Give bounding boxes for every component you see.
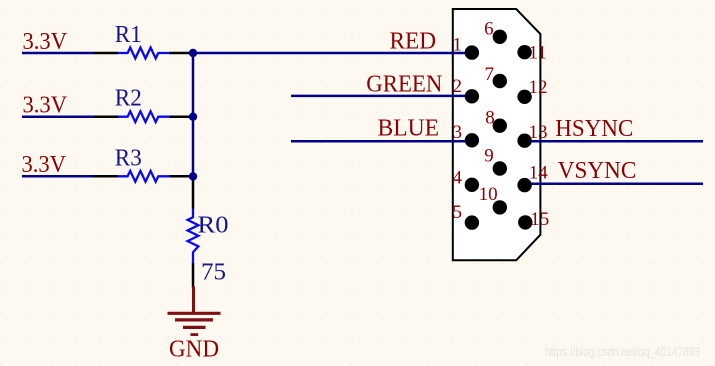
svg-text:R1: R1: [115, 22, 142, 48]
svg-text:GND: GND: [169, 337, 219, 363]
svg-text:4: 4: [453, 167, 463, 188]
svg-text:14: 14: [529, 162, 549, 183]
svg-text:5: 5: [453, 202, 463, 223]
svg-text:6: 6: [484, 19, 494, 40]
svg-text:13: 13: [529, 122, 548, 143]
svg-text:3.3V: 3.3V: [22, 152, 67, 178]
svg-text:R2: R2: [115, 86, 142, 112]
svg-text:BLUE: BLUE: [378, 116, 440, 142]
svg-text:R0: R0: [198, 212, 229, 238]
svg-text:3: 3: [453, 122, 463, 143]
svg-text:R3: R3: [115, 145, 142, 171]
svg-text:HSYNC: HSYNC: [555, 116, 633, 142]
svg-text:3.3V: 3.3V: [23, 29, 68, 55]
svg-text:15: 15: [530, 209, 549, 230]
svg-text:11: 11: [529, 42, 547, 63]
svg-text:RED: RED: [390, 29, 437, 55]
svg-text:75: 75: [201, 260, 226, 286]
svg-text:9: 9: [484, 146, 494, 167]
svg-text:https://blog.csdn.net/qq_40147: https://blog.csdn.net/qq_40147893: [545, 344, 700, 359]
svg-text:3.3V: 3.3V: [23, 93, 68, 119]
svg-text:2: 2: [453, 76, 463, 97]
svg-text:7: 7: [485, 64, 495, 85]
svg-text:12: 12: [529, 77, 548, 98]
svg-text:8: 8: [485, 108, 495, 129]
svg-text:VSYNC: VSYNC: [558, 158, 637, 184]
svg-text:GREEN: GREEN: [366, 71, 442, 97]
svg-text:10: 10: [479, 184, 498, 205]
svg-text:1: 1: [453, 34, 463, 55]
